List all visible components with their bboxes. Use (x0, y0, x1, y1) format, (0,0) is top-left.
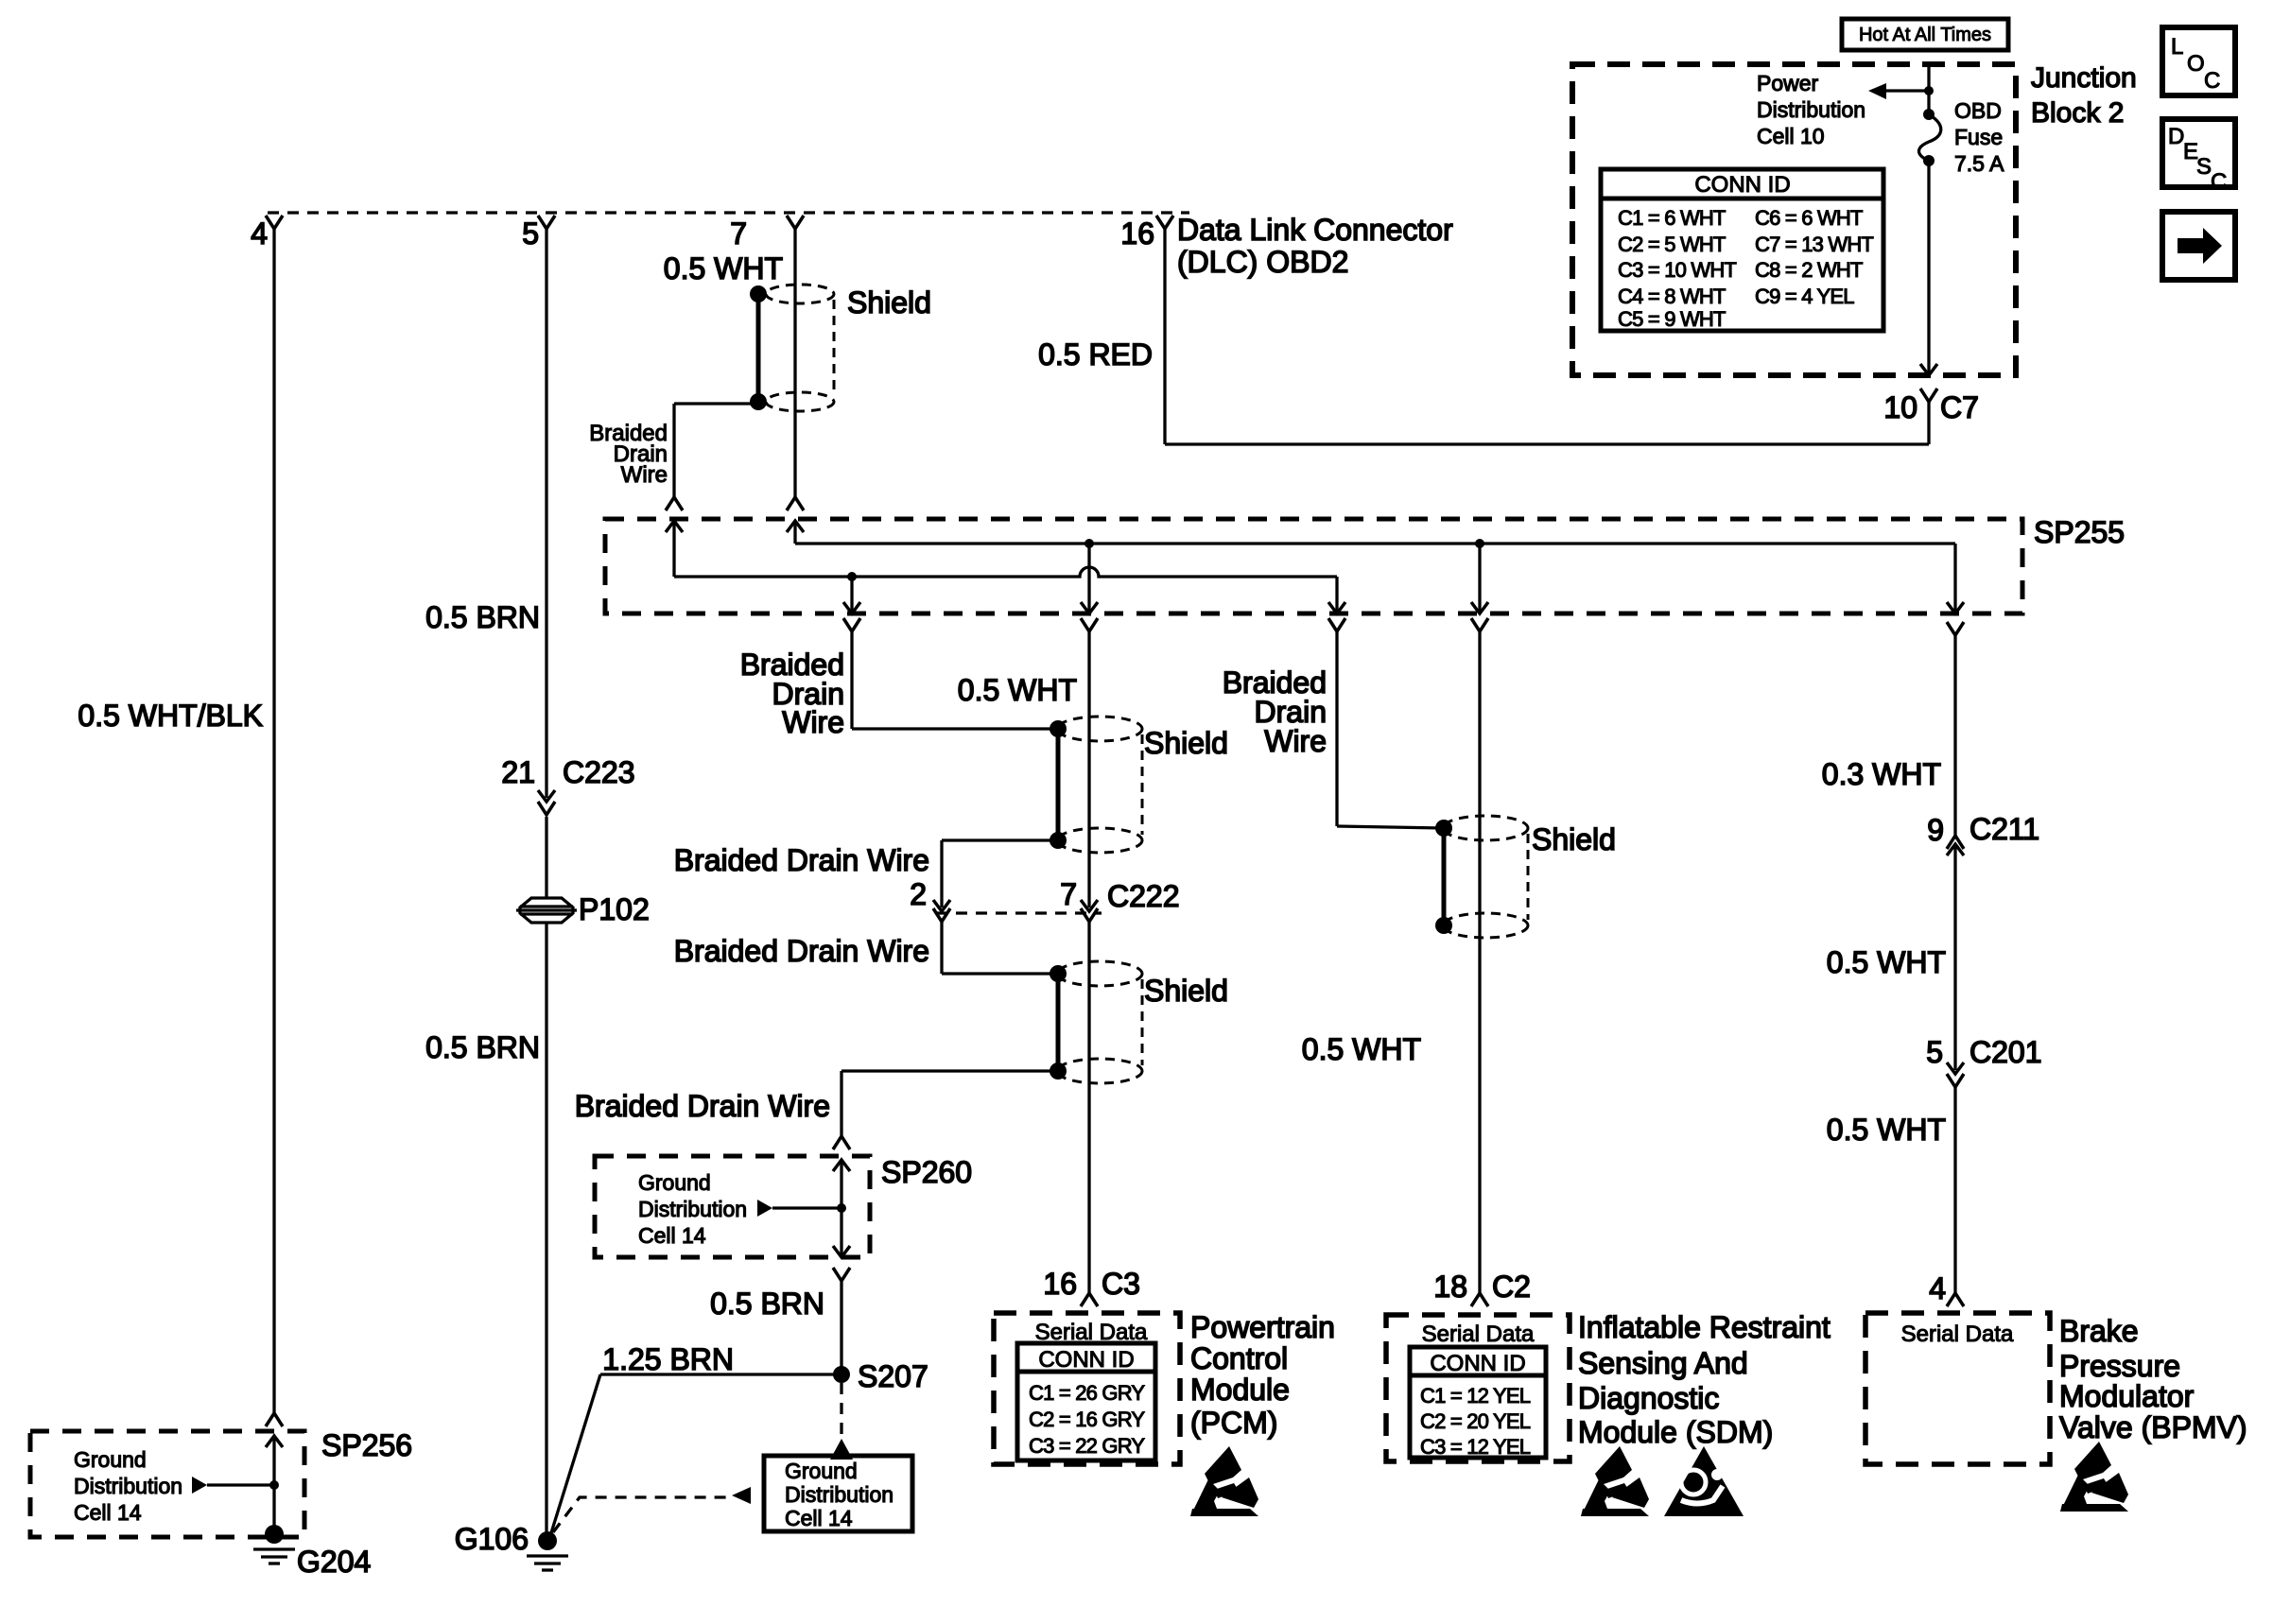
svg-text:C8 = 2 WHT: C8 = 2 WHT (1755, 258, 1863, 282)
svg-text:Fuse: Fuse (1954, 125, 2003, 149)
wire braided drain from SP255 to right shield (1335, 631, 1338, 826)
svg-text:SP260: SP260 (881, 1155, 972, 1189)
svg-text:Powertrain: Powertrain (1190, 1310, 1335, 1344)
wire from fuse to C7 (1927, 161, 1930, 375)
junction block 2 dashed box (1572, 64, 2016, 375)
svg-text:Serial Data: Serial Data (1901, 1322, 2014, 1347)
connector C222 pin 2 (933, 900, 950, 911)
svg-text:0.5 WHT/BLK: 0.5 WHT/BLK (78, 699, 263, 733)
svg-text:C2 = 20 YEL: C2 = 20 YEL (1420, 1409, 1531, 1433)
svg-text:C3 = 22 GRY: C3 = 22 GRY (1029, 1434, 1145, 1458)
dashed wire from G106 to ground distribution box (553, 1497, 732, 1532)
svg-text:Distribution: Distribution (785, 1482, 894, 1507)
svg-text:C3 = 10 WHT: C3 = 10 WHT (1618, 258, 1736, 282)
svg-text:1.25 BRN: 1.25 BRN (602, 1342, 734, 1376)
SP260 exit (833, 1246, 850, 1257)
grommet P102 (516, 898, 577, 923)
svg-text:4: 4 (1929, 1271, 1946, 1305)
svg-text:L: L (2171, 34, 2183, 60)
SP255 internal bus upper (pin7 wire) (795, 542, 1955, 544)
svg-text:Braided Drain Wire: Braided Drain Wire (674, 934, 929, 968)
svg-text:S: S (2196, 154, 2212, 180)
svg-text:10: 10 (1883, 390, 1917, 424)
LOC reference box (2162, 27, 2235, 95)
svg-text:C5 = 9 WHT: C5 = 9 WHT (1618, 307, 1726, 331)
splice SP260 dashed box (833, 1136, 850, 1149)
connector C223 pin 21 (545, 785, 547, 798)
shield upper on PCM wire (1057, 717, 1142, 741)
svg-text:0.5 WHT: 0.5 WHT (664, 251, 783, 285)
splice SP255 dashed box (605, 519, 2022, 613)
svg-text:C2: C2 (1492, 1270, 1531, 1304)
svg-text:P102: P102 (579, 892, 650, 926)
svg-text:2: 2 (910, 877, 927, 911)
svg-text:21: 21 (501, 755, 535, 789)
svg-text:Distribution: Distribution (638, 1197, 747, 1221)
ESD symbol SDM airbag (1664, 1446, 1744, 1516)
svg-text:C2 = 5 WHT: C2 = 5 WHT (1618, 233, 1726, 256)
svg-text:0.5 BRN: 0.5 BRN (710, 1287, 824, 1321)
svg-text:Braided Drain Wire: Braided Drain Wire (674, 843, 929, 877)
svg-text:C3 = 12 YEL: C3 = 12 YEL (1420, 1435, 1531, 1459)
svg-text:C1 = 6 WHT: C1 = 6 WHT (1618, 206, 1726, 230)
svg-text:7.5 A: 7.5 A (1954, 151, 2004, 176)
node DLC pin 5 (538, 216, 555, 229)
wire 0.5 BRN from SP260 to S207 (840, 1281, 842, 1374)
svg-text:4: 4 (251, 216, 268, 251)
svg-text:Shield: Shield (1144, 726, 1228, 760)
wire 0.5 WHT from DLC pin 7 into SP255 (793, 229, 796, 497)
connector C222 pin 7 (1087, 631, 1090, 907)
svg-text:16: 16 (1043, 1267, 1077, 1301)
Hot At All Times box (1842, 19, 2008, 50)
page arrow into SP260 (757, 1200, 772, 1217)
svg-text:C: C (2211, 169, 2227, 195)
CONN ID table (junction block) (1601, 169, 1883, 331)
BPMV dashed box (1865, 1313, 2050, 1464)
svg-text:0.5 BRN: 0.5 BRN (425, 600, 540, 634)
svg-text:Modulator: Modulator (2059, 1379, 2195, 1413)
svg-text:CONN ID: CONN ID (1038, 1347, 1134, 1373)
SP255 entry from braided drain wire (666, 497, 683, 510)
wire 0.5 WHT from SP255 to SDM (1478, 631, 1481, 1293)
svg-text:(DLC) OBD2: (DLC) OBD2 (1177, 245, 1348, 279)
svg-text:18: 18 (1433, 1270, 1467, 1304)
svg-text:Shield: Shield (1144, 974, 1228, 1008)
svg-text:O: O (2187, 51, 2205, 77)
svg-text:Brake: Brake (2059, 1314, 2139, 1348)
svg-text:Wire: Wire (782, 705, 844, 739)
svg-text:C211: C211 (1969, 812, 2039, 846)
svg-text:Valve (BPMV): Valve (BPMV) (2059, 1410, 2247, 1444)
wire braided drain from lower shield to SP260 (842, 1069, 1058, 1072)
svg-text:C1 = 12 YEL: C1 = 12 YEL (1420, 1384, 1531, 1408)
ESD symbol SDM hand (1581, 1446, 1649, 1516)
svg-text:Distribution: Distribution (74, 1474, 182, 1498)
wire 0.5 BRN from C223 to P102 (545, 817, 547, 898)
splice S207 (833, 1366, 850, 1383)
svg-text:Wire: Wire (1264, 724, 1327, 758)
svg-text:Cell 10: Cell 10 (1757, 124, 1825, 148)
junction nodes on upper bus (1084, 539, 1094, 548)
wire drain jog from shield to C222 pin 2 (942, 838, 1058, 841)
node PCM pin 16 C3 (1081, 1293, 1098, 1306)
forward arrow box (2162, 212, 2235, 280)
connector C201 pin 5 (1947, 1063, 1964, 1074)
CONN ID table (PCM) (1017, 1343, 1155, 1460)
svg-text:Power: Power (1757, 71, 1819, 95)
svg-text:9: 9 (1927, 813, 1944, 847)
svg-text:Cell 14: Cell 14 (638, 1223, 706, 1248)
connector C222 dashed line (936, 911, 1102, 914)
svg-text:5: 5 (1926, 1035, 1943, 1069)
svg-text:Ground: Ground (74, 1447, 147, 1472)
svg-text:C: C (2204, 68, 2220, 94)
svg-text:Shield: Shield (847, 285, 931, 320)
braided drain stub shield upper (1050, 720, 1067, 737)
shield around DLC pin 7 wire (766, 285, 834, 303)
node DLC pin 4 (266, 216, 283, 229)
wire 0.5 WHT/BLK from DLC pin 4 to SP256 (272, 229, 275, 1413)
SDM dashed box (1386, 1315, 1570, 1461)
svg-text:Inflatable Restraint: Inflatable Restraint (1578, 1310, 1831, 1344)
SP255 internal bus lower (drain wire) with hop over x=1152 (674, 567, 1337, 577)
svg-text:C9 = 4 YEL: C9 = 4 YEL (1755, 285, 1854, 308)
svg-text:Hot At All Times: Hot At All Times (1859, 25, 1991, 45)
ground G106 (538, 1531, 557, 1550)
wire 0.5 WHT through shields to PCM (1087, 922, 1090, 1293)
dashed wire from S207 to ground distribution box (840, 1383, 842, 1437)
svg-text:Distribution: Distribution (1757, 97, 1865, 122)
svg-text:Junction: Junction (2031, 62, 2137, 94)
wire braided drain from DLC shield to SP255 (674, 402, 758, 405)
svg-text:Block 2: Block 2 (2031, 97, 2124, 129)
DESC reference box (2162, 119, 2235, 187)
ground distribution solid box (764, 1456, 912, 1531)
svg-text:7: 7 (730, 216, 747, 251)
svg-text:7: 7 (1060, 877, 1077, 911)
svg-text:Diagnostic: Diagnostic (1578, 1381, 1719, 1415)
svg-text:0.5 RED: 0.5 RED (1038, 337, 1153, 371)
svg-text:Pressure: Pressure (2059, 1349, 2180, 1383)
svg-text:5: 5 (522, 216, 539, 251)
Data Link Connector (DLC) OBD2 dashed outline (268, 211, 1189, 214)
braided drain wire stub at DLC shield (750, 285, 767, 302)
svg-text:OBD: OBD (1954, 98, 2002, 123)
svg-text:Cell 14: Cell 14 (74, 1500, 142, 1525)
svg-text:Braided Drain Wire: Braided Drain Wire (575, 1089, 830, 1123)
svg-text:CONN ID: CONN ID (1694, 172, 1790, 198)
svg-text:SP256: SP256 (321, 1428, 412, 1462)
svg-text:0.5 WHT: 0.5 WHT (1827, 1113, 1946, 1147)
wire braided drain from SP255 to shield (850, 631, 853, 729)
svg-text:Ground: Ground (638, 1170, 711, 1195)
splice SP256 dashed box (266, 1413, 283, 1426)
wire 0.5 BRN from DLC pin 5 to C223 (545, 229, 547, 785)
wire 0.5 WHT from C211 to C201 (1953, 844, 1956, 1070)
svg-text:Module (SDM): Module (SDM) (1578, 1415, 1773, 1449)
svg-text:Module: Module (1190, 1373, 1290, 1407)
svg-text:C2 = 16 GRY: C2 = 16 GRY (1029, 1408, 1145, 1431)
braided drain stub shield lower (1050, 965, 1067, 982)
svg-text:(PCM): (PCM) (1190, 1406, 1277, 1440)
svg-text:G204: G204 (297, 1545, 371, 1579)
svg-text:0.5 WHT: 0.5 WHT (958, 673, 1077, 707)
wire 0.3 WHT from SP255 to C211 (1953, 635, 1956, 836)
SP255 exit drain wire right (1335, 577, 1338, 613)
svg-text:C1 = 26 GRY: C1 = 26 GRY (1029, 1381, 1145, 1405)
shield lower on PCM wire (1057, 961, 1142, 986)
wire 1.25 BRN from S207 to G106 (600, 1373, 842, 1375)
svg-text:Serial Data: Serial Data (1422, 1322, 1535, 1347)
svg-text:C4 = 8 WHT: C4 = 8 WHT (1618, 285, 1726, 308)
wire 0.5 BRN from P102 to G106 (545, 923, 547, 1541)
connector C211 pin 9 (1947, 836, 1964, 849)
page arrow to Power Distribution Cell 10 (1924, 86, 1934, 95)
braided drain stub right shield (1435, 820, 1452, 837)
node DLC pin 16 (1156, 216, 1173, 229)
svg-text:SP255: SP255 (2034, 515, 2125, 549)
junction node on lower bus (847, 572, 857, 581)
svg-text:0.5 WHT: 0.5 WHT (1827, 945, 1946, 979)
wire 0.5 WHT from C201 to BPMV (1953, 1086, 1956, 1293)
ground G204 (265, 1525, 284, 1544)
connector C7 pin 10 (1920, 389, 1937, 402)
svg-text:Cell 14: Cell 14 (785, 1506, 853, 1530)
svg-text:0.5 WHT: 0.5 WHT (1302, 1032, 1421, 1066)
wire 0.5 RED from DLC pin 16 to C7 (1163, 229, 1166, 444)
SP255 entry from DLC pin 7 wire (787, 497, 804, 510)
svg-text:0.5 BRN: 0.5 BRN (425, 1030, 540, 1064)
node SDM pin 18 C2 (1471, 1293, 1488, 1306)
page arrow into SP256 (192, 1477, 207, 1494)
node DLC pin 7 (787, 216, 804, 229)
svg-text:0.3 WHT: 0.3 WHT (1822, 757, 1941, 791)
CONN ID table (SDM) (1410, 1347, 1546, 1458)
svg-text:S207: S207 (858, 1359, 928, 1393)
wire inside junction block (1927, 64, 1930, 114)
svg-text:C3: C3 (1102, 1267, 1140, 1301)
fuse OBD 7.5 A (1923, 109, 1935, 120)
shield on SDM wire (1443, 816, 1528, 840)
SP255 exit 0.5 WHT to PCM (1087, 544, 1090, 613)
SP255 exit 0.5 WHT to SDM (1478, 544, 1481, 613)
ESD symbol PCM (1190, 1446, 1258, 1516)
node BPMV pin 4 (1947, 1293, 1964, 1306)
wire drain from C222 to lower shield (940, 922, 943, 974)
ESD symbol BPMV (2060, 1442, 2128, 1512)
svg-text:Control: Control (1190, 1341, 1288, 1375)
svg-text:C7: C7 (1940, 390, 1979, 424)
svg-text:Ground: Ground (785, 1459, 858, 1483)
svg-text:C6 = 6 WHT: C6 = 6 WHT (1755, 206, 1863, 230)
svg-text:Data Link Connector: Data Link Connector (1177, 213, 1453, 247)
svg-text:Sensing And: Sensing And (1578, 1346, 1748, 1380)
svg-text:C201: C201 (1969, 1035, 2042, 1069)
svg-text:G106: G106 (455, 1522, 529, 1556)
SP255 exit 0.3 WHT to BPMV (1953, 544, 1956, 613)
svg-text:C7 = 13 WHT: C7 = 13 WHT (1755, 233, 1873, 256)
SP255 exit drain wire left (850, 577, 853, 613)
svg-text:C223: C223 (563, 755, 635, 789)
svg-text:16: 16 (1120, 216, 1154, 251)
svg-text:Wire: Wire (621, 462, 668, 488)
svg-text:CONN ID: CONN ID (1430, 1351, 1525, 1376)
svg-text:Shield: Shield (1532, 822, 1616, 856)
PCM dashed box (994, 1313, 1180, 1464)
svg-text:C222: C222 (1107, 879, 1180, 913)
svg-text:D: D (2168, 124, 2184, 149)
